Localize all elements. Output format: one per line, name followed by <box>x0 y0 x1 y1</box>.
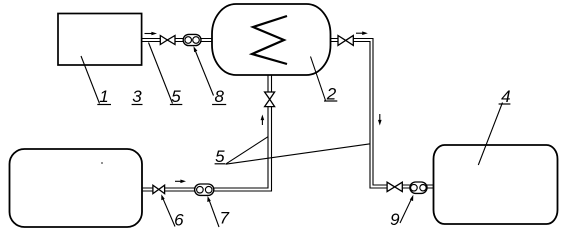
wire pipe tank1-to-valveA (double line) <box>142 39 161 42</box>
tank 3 (rounded tank bottom-left) <box>10 149 143 227</box>
wire pipe valve9-to-pump9 <box>402 185 410 188</box>
wire pipe pump9-to-tank4 <box>427 185 434 188</box>
wire pipe valveA-to-pump8 <box>175 39 183 42</box>
leader line label 5 (to top pipe) <box>149 43 173 104</box>
valve 6 (right of tank 3) <box>153 185 165 193</box>
flow arrow up (left of riser) <box>261 115 265 126</box>
leader line label 5 to downcomer <box>226 144 371 164</box>
svg-text:3: 3 <box>132 87 142 106</box>
valve 9 (before pump 9) <box>387 182 402 191</box>
leader line label 9 (arrow to pump 9) <box>400 195 413 223</box>
flow arrow right (after valve B) <box>356 31 368 35</box>
svg-text:6: 6 <box>174 211 184 230</box>
pump 9 <box>410 182 427 193</box>
wire pipe vessel2-to-valveB <box>331 39 339 42</box>
valve (vertical, below vessel 2) <box>265 92 275 107</box>
wire pipe pump7-right-and-up to vertical riser (elbow) <box>214 107 272 191</box>
wire pipe pump8-to-vessel2 <box>201 39 212 42</box>
svg-text:4: 4 <box>501 87 510 106</box>
heating element zigzag inside vessel 2 <box>252 16 287 64</box>
leader line label 6 (arrow to valve 6) <box>161 194 175 226</box>
leader line label 2 <box>311 57 326 101</box>
tank 1 (rectangular apparatus top-left) <box>58 14 142 66</box>
svg-text:7: 7 <box>219 209 229 228</box>
leader line label 5 to riser <box>226 137 269 165</box>
svg-text:5: 5 <box>171 87 181 106</box>
wire pipe riser valve-vert-to-vessel2-bottom <box>268 75 272 92</box>
svg-text:5: 5 <box>215 147 225 166</box>
svg-text:8: 8 <box>214 87 224 106</box>
tank 4 (rounded tank bottom-right) <box>434 145 558 224</box>
flow arrow right (between valve 6 and pump 7) <box>175 180 186 184</box>
wire pipe tank3-to-valve6 <box>142 188 153 191</box>
leader line label 4 <box>478 103 502 166</box>
leader line label 7 (arrow to pump 7) <box>207 196 219 227</box>
pump 7 <box>195 184 214 195</box>
wire pipe valveB-right-and-down to valve9 (elbow) <box>353 39 387 189</box>
flow arrow right (above pipe after tank 1) <box>145 32 158 36</box>
wire pipe valve6-to-pump7 <box>165 188 195 191</box>
leader line label 8 (arrow to pump 8) <box>194 46 214 95</box>
valve A (between tank1 and pump8) <box>160 36 175 45</box>
flow arrow down (right of downcomer) <box>378 114 382 126</box>
vessel 2 (horizontal drum with heater) <box>212 4 331 75</box>
leader line label 1 <box>81 56 100 104</box>
speck inside tank 3 <box>101 162 103 164</box>
pump 8 (gear pump symbol) <box>183 34 201 45</box>
svg-text:1: 1 <box>99 87 108 106</box>
valve B (right of vessel 2) <box>338 36 353 46</box>
svg-text:9: 9 <box>390 210 400 229</box>
